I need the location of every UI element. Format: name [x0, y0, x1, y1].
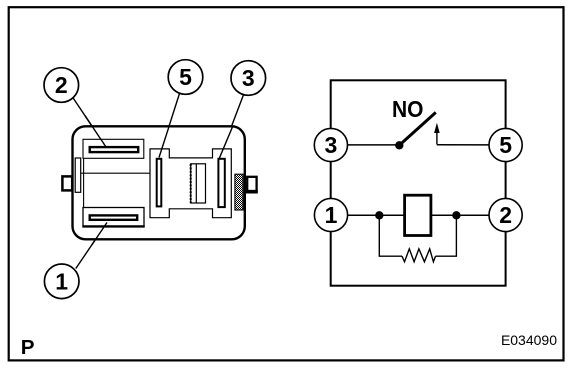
svg-text:E034090: E034090: [501, 332, 557, 348]
svg-text:2: 2: [55, 72, 68, 98]
svg-text:1: 1: [55, 269, 68, 295]
svg-text:2: 2: [499, 202, 512, 228]
svg-text:5: 5: [499, 132, 512, 158]
svg-text:5: 5: [179, 64, 192, 90]
svg-text:P: P: [21, 337, 35, 359]
svg-text:1: 1: [325, 202, 338, 228]
svg-text:NO: NO: [392, 96, 424, 122]
svg-text:3: 3: [325, 132, 338, 158]
svg-text:3: 3: [242, 65, 255, 91]
